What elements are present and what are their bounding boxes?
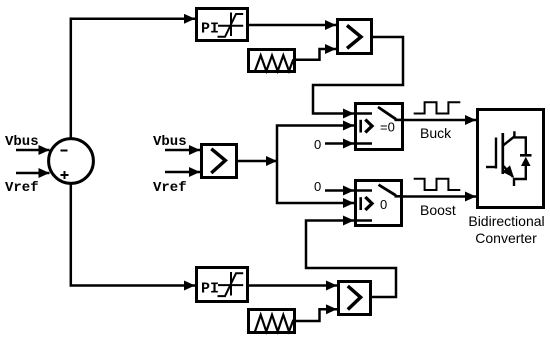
wire Buck switch output to converter xyxy=(404,119,476,122)
wire comparator 2 output to tee junction xyxy=(238,160,277,163)
switch block Buck xyxy=(356,104,405,150)
triangle wave generator block 1 (top) xyxy=(249,50,295,72)
PI controller block 2 (bottom) xyxy=(197,268,248,302)
svg-text:Vbus: Vbus xyxy=(153,134,187,150)
svg-text:PI: PI xyxy=(201,281,219,298)
minus sign (top input) xyxy=(61,150,68,152)
wire summing junction top to PI block 1 xyxy=(71,19,195,138)
svg-text:Vref: Vref xyxy=(5,180,39,196)
wire comparator 3 to Boost switch input 3 xyxy=(306,221,396,298)
wire Vbus into summing junction xyxy=(16,149,50,152)
block Bidirectional Converter xyxy=(478,110,544,208)
svg-text:0: 0 xyxy=(380,197,387,212)
svg-text:=0: =0 xyxy=(380,120,395,135)
wire PI 1 to comparator 1 xyxy=(249,24,336,27)
wire Vref into summing junction xyxy=(16,172,50,175)
relational operator comparator 2 (middle) xyxy=(202,145,237,178)
svg-text:0: 0 xyxy=(314,179,321,194)
svg-text:Vref: Vref xyxy=(153,180,187,196)
svg-text:Bidirectional: Bidirectional xyxy=(468,213,544,229)
svg-text:Converter: Converter xyxy=(475,230,537,246)
svg-text:0: 0 xyxy=(314,137,321,152)
wire constant 0 to Buck switch input 3 xyxy=(325,142,354,145)
wire Vref into comparator 2 xyxy=(165,171,200,174)
PI controller block 1 (top) xyxy=(197,9,248,41)
wire comparator 1 to Buck switch input 1 xyxy=(313,37,403,114)
triangle wave generator block 2 (bottom) xyxy=(249,310,295,333)
wire triangle wave 1 to comparator 1 xyxy=(296,49,336,60)
plus sign (bottom input) xyxy=(61,171,69,179)
svg-text:Buck: Buck xyxy=(420,125,452,141)
wire tee junction to Boost switch control input xyxy=(277,161,354,203)
summing junction circle xyxy=(49,139,94,184)
relational operator comparator 1 (top) xyxy=(338,20,372,54)
relational operator comparator 3 (bottom) xyxy=(339,282,371,315)
wire constant 0 to Boost switch input 1 xyxy=(325,189,354,192)
wire summing junction bottom to PI block 2 xyxy=(71,185,195,286)
pulse waveform icon (Boost PWM) xyxy=(414,179,461,190)
svg-text:PI: PI xyxy=(201,21,219,38)
wire Boost switch output to converter xyxy=(403,195,476,198)
node Bidirectional Converter (block label) xyxy=(468,213,544,246)
wire Vbus into comparator 2 xyxy=(165,149,200,152)
switch block Boost xyxy=(356,181,404,226)
svg-text:Boost: Boost xyxy=(420,202,456,218)
pulse waveform icon (Buck PWM) xyxy=(414,102,461,113)
wire PI 2 to comparator 3 xyxy=(249,284,337,287)
wire tee junction to Buck switch control input xyxy=(277,126,354,162)
wire triangle wave 2 to comparator 3 xyxy=(296,309,337,321)
svg-text:Vbus: Vbus xyxy=(5,134,39,150)
transistor IGBT with diode icon xyxy=(486,131,532,186)
